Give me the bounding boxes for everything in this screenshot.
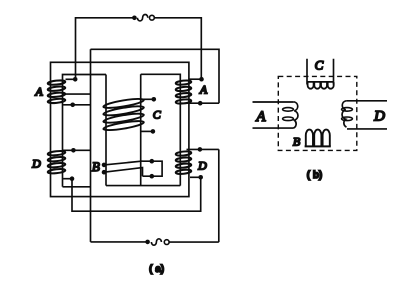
- coil D (b) hook 1: [342, 108, 353, 112]
- coil B bracket: [143, 161, 163, 176]
- node coil D1 bottom: [70, 176, 75, 181]
- node coil D1 top: [71, 148, 76, 153]
- node coil A1 top: [73, 77, 78, 82]
- svg-text:B: B: [92, 159, 100, 174]
- wire bottom-right from source S2: [169, 241, 219, 243]
- terminal circle source S2 right: [164, 240, 169, 245]
- U wire joining D1 and D2 bottoms: [72, 177, 201, 211]
- source S1 squiggle: [137, 15, 147, 21]
- svg-text:A: A: [255, 109, 266, 125]
- svg-text:( a): ( a): [149, 264, 164, 275]
- coil C (b) leads: [307, 59, 334, 85]
- coil A (b) loops: [294, 102, 298, 128]
- node coil A2 bottom: [198, 101, 203, 106]
- node coil D2 bottom: [198, 175, 203, 180]
- terminal dot source S1 left: [132, 15, 137, 20]
- coil A1 bottom lead: [63, 104, 90, 106]
- left inner limb line: [63, 75, 107, 187]
- right inner limb line: [141, 74, 181, 185]
- node coil B right upper: [150, 159, 155, 164]
- svg-text:( b): ( b): [307, 170, 323, 181]
- coil A2 top terminal stub: [189, 78, 202, 80]
- coil D1 bottom tap stub: [63, 178, 72, 180]
- node coil C top: [152, 97, 157, 102]
- coil B turn 2: [104, 168, 143, 177]
- coil D2 bottom tap stub: [190, 176, 201, 178]
- coil D (b) hook 2: [342, 117, 353, 121]
- outer frame rectangle: [51, 62, 189, 196]
- wire top-right from source S1 down to coil A2: [155, 18, 202, 79]
- coil D1 top lead: [63, 149, 91, 151]
- coil C (b) top bar: [307, 81, 334, 83]
- svg-text:A: A: [34, 84, 43, 98]
- coil C (b) loops: [308, 82, 334, 89]
- coil D1 loops: [48, 150, 66, 174]
- coil D (b) loops: [342, 101, 346, 127]
- node coil C bottom: [151, 129, 156, 134]
- coil C top terminal stub: [141, 98, 154, 100]
- wire long left vertical: [90, 49, 92, 242]
- node coil B right lower: [150, 174, 155, 179]
- wire upper loop H2: [91, 49, 220, 103]
- coil A1 top terminal stub: [66, 78, 76, 80]
- middle bottom wire: [106, 185, 180, 187]
- right C-limb vertical: [140, 74, 142, 185]
- coil A1 loops: [48, 80, 66, 104]
- coil C bottom terminal stub: [141, 130, 153, 132]
- coil D (b) leads: [346, 101, 387, 129]
- coil A2 loops: [176, 80, 192, 104]
- source S2 squiggle: [151, 239, 161, 245]
- coil B turn 1: [104, 161, 143, 165]
- coil C loops: [103, 97, 144, 132]
- coil A (b) hook 2: [283, 117, 294, 121]
- wire top-left from source terminal down to coil A1: [76, 18, 135, 80]
- coil B (b) loops: [306, 130, 330, 147]
- coil A (b) hook 1: [283, 108, 294, 112]
- node coil D2 top: [198, 147, 203, 152]
- coil A2 bottom lead: [180, 102, 219, 104]
- coil D2 top lead: [187, 148, 219, 150]
- node coil B left lower: [102, 170, 107, 175]
- node coil A2 top: [199, 77, 204, 82]
- svg-text:D: D: [197, 159, 207, 173]
- terminal circle source S1 right: [150, 15, 155, 20]
- node coil A1 bottom: [70, 103, 75, 108]
- coil A1 inner step wire: [63, 93, 90, 95]
- svg-text:C: C: [153, 107, 162, 121]
- figure b dashed stator boundary: [278, 76, 357, 150]
- node coil B left upper: [102, 163, 107, 168]
- svg-text:A: A: [199, 83, 208, 97]
- svg-text:C: C: [315, 58, 324, 73]
- svg-text:D: D: [31, 157, 41, 171]
- coil A (b) leads: [253, 102, 294, 128]
- coil B (b) base bar: [305, 145, 331, 147]
- svg-text:B: B: [293, 135, 301, 149]
- coil D2 loops: [176, 151, 192, 175]
- svg-text:D: D: [373, 109, 385, 125]
- coil D1 bottom lead: [63, 186, 91, 188]
- wire bottom-left to source S2: [91, 241, 148, 243]
- terminal dot source S2 left: [145, 240, 150, 245]
- wire right outer to bottom source: [218, 149, 220, 242]
- left C-limb vertical: [105, 75, 107, 186]
